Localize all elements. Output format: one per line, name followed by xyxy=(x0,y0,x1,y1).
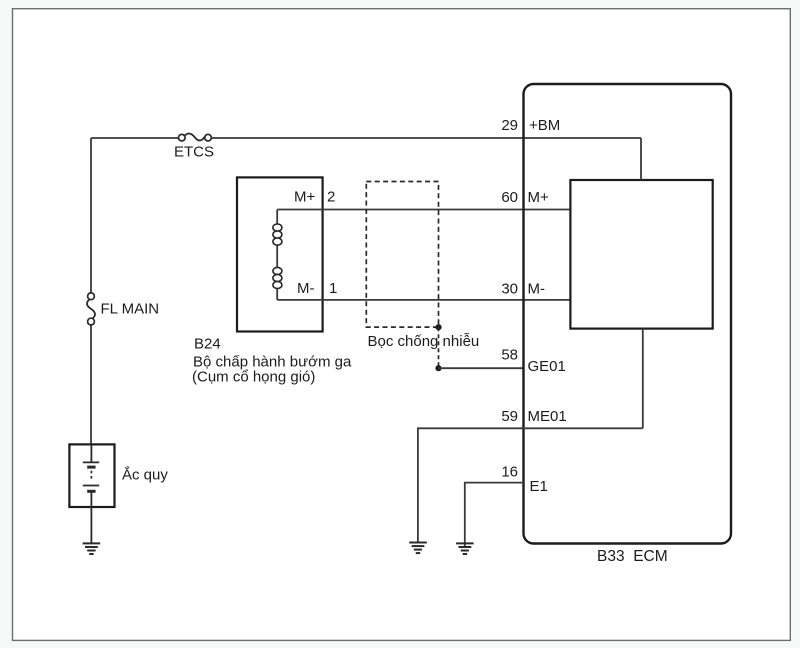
svg-text:M+: M+ xyxy=(294,189,315,206)
fuse ETCS xyxy=(179,133,212,141)
svg-text:FL MAIN: FL MAIN xyxy=(101,301,160,318)
svg-text:59: 59 xyxy=(501,408,518,425)
coil winding 1 xyxy=(273,224,282,245)
svg-text:B33 ECM: B33 ECM xyxy=(597,548,668,565)
shield dashed box xyxy=(366,182,438,328)
wire GE01 (shield drain to ECM pin 58) xyxy=(439,367,524,369)
svg-text:(Cụm cổ họng gió): (Cụm cổ họng gió) xyxy=(192,369,315,386)
svg-text:58: 58 xyxy=(501,347,518,364)
ground (E1) xyxy=(456,543,474,554)
svg-text:+BM: +BM xyxy=(529,117,560,134)
wire E1 (pin 16 to ground) xyxy=(465,483,524,548)
svg-text:2: 2 xyxy=(327,189,335,206)
svg-text:M-: M- xyxy=(297,280,315,297)
ground (ME01) xyxy=(409,543,427,554)
wire: +BM top horizontal (battery feed to ECM pin 29) xyxy=(91,137,641,139)
svg-text:GE01: GE01 xyxy=(528,358,566,375)
battery symbol xyxy=(83,444,99,543)
svg-text:E1: E1 xyxy=(530,478,548,495)
svg-text:29: 29 xyxy=(501,117,518,134)
junction dot at GE01 wire xyxy=(435,365,441,371)
coil winding 2 xyxy=(273,267,282,288)
battery box xyxy=(69,444,114,507)
svg-text:16: 16 xyxy=(501,464,518,481)
svg-text:30: 30 xyxy=(501,281,518,298)
svg-text:M+: M+ xyxy=(528,189,549,206)
svg-text:B24: B24 xyxy=(194,336,221,353)
wire: left vertical from top wire to battery xyxy=(90,138,92,444)
ground (battery) xyxy=(83,543,101,554)
shield drain dashed wire xyxy=(438,327,440,368)
svg-text:60: 60 xyxy=(501,189,518,206)
coil vertical lead xyxy=(276,210,278,300)
motor driver block inside ECM xyxy=(570,180,712,329)
svg-text:1: 1 xyxy=(329,280,337,297)
svg-text:Bọc chống nhiễu: Bọc chống nhiễu xyxy=(368,333,480,350)
svg-text:Ắc quy: Ắc quy xyxy=(122,466,168,484)
ECM box B33 xyxy=(524,84,732,544)
svg-text:ME01: ME01 xyxy=(528,408,567,425)
B24 box (throttle actuator) xyxy=(237,177,323,331)
wire +BM internal drop to driver block xyxy=(640,138,642,180)
wire M+ (B24 pin2 to ECM pin 60 to driver block) xyxy=(277,209,570,211)
wire ME01 (pin 59 to ground) xyxy=(418,428,643,542)
fuse FL MAIN xyxy=(87,293,95,325)
wire M- (B24 pin1 to ECM pin 30 to driver block) xyxy=(277,299,570,301)
svg-text:M-: M- xyxy=(528,281,546,298)
junction dot on shield corner xyxy=(435,324,441,330)
wire ME01 internal riser from driver block xyxy=(642,329,644,429)
svg-text:ETCS: ETCS xyxy=(174,144,214,161)
